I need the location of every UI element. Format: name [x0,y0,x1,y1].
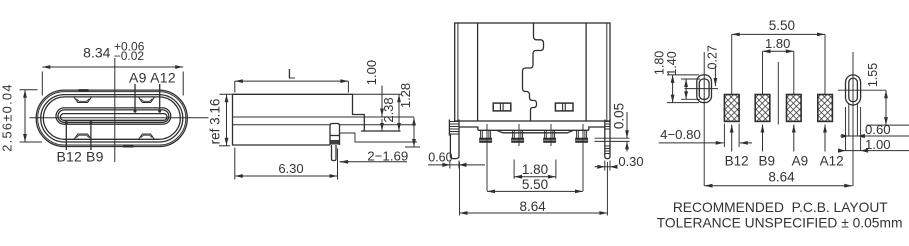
shell weld seam thick segment bottom [123,145,134,147]
pin 2 [513,130,523,138]
pin 3 centerline [550,124,552,146]
pin 2 centerline [518,124,520,146]
dim 6.30 ext left [234,148,236,180]
label arrow A9 [793,125,795,152]
dim 0.30 arrows [595,166,615,168]
dim 4-0.80 leader [659,142,724,144]
svg-text:8.64: 8.64 [519,199,546,214]
dim 1.80 line [763,50,794,52]
svg-text:8.34: 8.34 [83,45,110,61]
dim 0.60 right ext lines [849,103,858,136]
dim 8.64 line [460,212,608,214]
svg-text:−0.02: −0.02 [114,49,145,63]
hole right [555,103,573,111]
shell mid [41,95,183,142]
dim 8.64 line [705,185,853,187]
dim 1.28 ext bottom [405,146,420,148]
dim 1.28 line [413,118,415,148]
centerline pad1 [731,34,733,94]
svg-text:1.80: 1.80 [522,162,548,177]
interior line upper (extends to 1.28 dim) [233,116,415,118]
lower step [340,133,418,142]
svg-text:A9: A9 [792,154,809,169]
body inner left wall [458,24,607,122]
dim 0.60 right arrows [841,134,849,138]
leg tab inner line [330,135,340,137]
centerline pad4 [824,34,826,94]
svg-text:2.38: 2.38 [381,97,396,122]
pad A9 [787,95,802,122]
dim 6.30 ext right [337,149,339,180]
label arrow A12 [824,125,826,152]
svg-text:5.50: 5.50 [769,18,795,33]
horizontal centerline [30,117,209,119]
oval pad right outer [846,75,861,105]
interior wall right [585,23,587,121]
dim L ext left [234,81,236,92]
interior line lower [233,124,415,126]
dim 0.30 ext lines [605,161,610,171]
dim 1.40 line [685,79,687,99]
svg-text:1.00: 1.00 [364,60,379,85]
pin 1 [481,130,491,138]
body top edge extensions [220,93,402,95]
shell lug left [449,120,459,159]
svg-text:6.30: 6.30 [278,161,303,176]
svg-text:L: L [288,65,296,81]
dim 0.60 ext lines [450,161,459,169]
latch bump top-left [74,97,91,102]
pad B9 [755,95,770,122]
dim 6.30 line [235,175,338,177]
dim 0.05 arrows [626,112,628,138]
oval pad right inner [849,78,858,102]
dim 1.40 ext lines [681,79,700,99]
crossline oval right [838,89,886,91]
hole left [493,103,511,111]
svg-text:5.50: 5.50 [522,177,548,192]
dim 1.00 right ext lines [846,107,861,151]
centerline oval right [852,52,854,186]
dim ref 3.16 ext bottom [219,145,230,147]
dim 1.80 ext lines [514,160,556,179]
svg-text:0.30: 0.30 [618,154,643,169]
svg-text:RECOMMENDED P.C.B. LAYOUT: RECOMMENDED P.C.B. LAYOUT [673,200,888,215]
shell weld seam thick segment top [79,89,89,91]
break line [523,23,544,121]
svg-text:1.00: 1.00 [865,137,891,152]
pin 4 centerline [582,124,584,191]
centerline pad3 [793,51,795,94]
svg-text:A9 A12: A9 A12 [129,70,176,86]
dim 2-1.69 leader [340,161,408,163]
dim 1.80 line [514,176,556,178]
dim 2.56 ext bottom [20,141,43,143]
pin A9 leader [134,84,136,111]
shell outer second line [38,92,186,145]
svg-text:1.40: 1.40 [665,51,679,75]
extra down arrow on 1.00 line [381,119,383,131]
dim 4-0.80 ext lines [724,124,739,148]
dim 1.55 ext bottom [867,124,909,126]
svg-text:A12: A12 [820,154,844,169]
pin B12 leader [65,122,67,150]
svg-text:0.60: 0.60 [865,122,891,137]
svg-text:0.27: 0.27 [705,45,719,69]
base band left step [459,127,478,130]
dim 2.56 ext top [20,89,38,91]
shell lug right [605,120,610,159]
svg-text:1.28: 1.28 [398,83,413,108]
oval pad left inner [699,79,709,99]
dim 8.64 ext lines [460,162,608,216]
body outline [233,94,365,145]
pin 4 [577,130,587,138]
dim L ext right [347,81,349,92]
label arrow B9 [762,125,764,152]
svg-text:1.55: 1.55 [866,63,880,87]
label arrow B12 [731,125,733,152]
pad B12 [724,95,739,122]
pad A12 [818,95,833,122]
base inner trapezoid [497,130,574,133]
view centerline [777,62,779,125]
dim 1.00 line [381,86,383,117]
base band bottom [478,129,589,131]
dim 1.55 line [885,90,887,125]
leg tab [330,124,340,146]
svg-text:8.64: 8.64 [768,170,795,185]
pin A12 leader [159,84,161,111]
centerline pad2 [762,51,764,94]
pin 3 [545,130,555,138]
centerline oval left [703,52,705,186]
dim 1.00 right line [841,150,909,152]
dim 0.27 leader [714,66,716,86]
svg-text:B12 B9: B12 B9 [56,148,103,164]
dim ref 3.16 line [226,94,228,146]
dim 8.34 extension right [182,72,184,96]
dim L line [235,80,349,82]
svg-text:2−1.69: 2−1.69 [367,148,408,163]
dim 1.00 right arrows [838,149,846,153]
dim 5.50 line [487,190,583,192]
svg-text:0.05: 0.05 [612,103,627,129]
latch bump bottom-left [74,134,91,139]
dim 0.60 line with arrows [428,164,485,166]
svg-text:2.56±0.04: 2.56±0.04 [0,83,15,152]
shell inner [43,97,180,139]
dim 0.60 right line [840,135,909,137]
latch bump bottom-right [139,134,155,139]
dim 8.34 extension left [41,72,43,96]
oval pad left outer [697,75,712,103]
interior wall left [477,23,479,121]
dim 2.38 line [398,94,400,131]
dim 8.34 line [42,66,183,68]
leg tab dark foot [331,140,340,145]
tongue mid [58,110,169,122]
dim 5.50 line [732,33,825,35]
rear pad step bottom [361,130,401,132]
body outer [455,23,610,121]
svg-text:0.60: 0.60 [428,150,452,164]
base band right step [589,127,605,130]
leg below body [332,145,337,161]
dim 1.80 left ext lines [667,75,699,103]
svg-text:B9: B9 [759,154,776,169]
svg-text:4−0.80: 4−0.80 [660,127,701,142]
pin B9 leader [90,122,92,150]
dim 2.56 line [24,90,26,142]
tongue inner [60,114,167,121]
crossline oval left [685,88,719,90]
vertical centerline [114,58,116,162]
svg-text:1.80: 1.80 [765,36,790,51]
svg-text:ref 3.16: ref 3.16 [208,99,223,145]
dim 1.80 left line [672,75,674,103]
tongue outer [56,108,171,124]
shell outer [36,90,187,146]
dim 0.05 refs [595,138,630,141]
pin 1 centerline [486,124,488,191]
svg-text:B12: B12 [725,154,749,169]
latch bump top-right [139,97,155,102]
svg-text:TOLERANCE UNSPECIFIED ± 0.05mm: TOLERANCE UNSPECIFIED ± 0.05mm [657,216,903,231]
